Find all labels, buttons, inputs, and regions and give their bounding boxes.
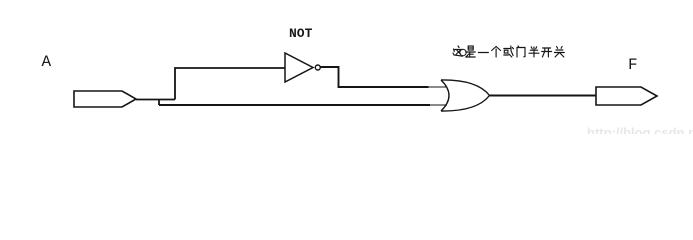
wire thin lead into OR gate upper input: [429, 86, 448, 88]
input connector A: [74, 91, 136, 107]
wire from connector A tip: [136, 99, 175, 101]
wire lower rail to OR gate input 2: [159, 104, 430, 106]
是: [466, 46, 476, 57]
wire thin lead into OR gate lower input: [430, 104, 447, 106]
output connector F: [596, 87, 657, 105]
svg-text:http://blog.csdn.net: http://blog.csdn.net: [587, 125, 693, 134]
关: [554, 47, 564, 58]
svg-text:F: F: [628, 56, 638, 74]
label: 这是一个或门半开关 (hand-drawn strokes): [453, 46, 564, 57]
OR gate U2: [441, 80, 490, 111]
开: [542, 48, 552, 57]
wire branch up to NOT gate: [175, 68, 285, 100]
wire step down to lower rail: [158, 100, 160, 106]
inverter U1 triangle: [285, 53, 313, 82]
门: [517, 46, 525, 57]
或: [504, 46, 514, 57]
半: [529, 47, 539, 57]
wire from inverter output: [320, 67, 428, 87]
inverter U1 bubble: [315, 65, 320, 70]
wire OR output to connector F: [490, 95, 597, 97]
svg-text:NOT: NOT: [289, 26, 313, 41]
这: [453, 46, 463, 56]
annotation circle artifact: [460, 49, 466, 55]
个: [492, 47, 501, 58]
一: [478, 52, 488, 54]
svg-text:A: A: [42, 53, 52, 71]
